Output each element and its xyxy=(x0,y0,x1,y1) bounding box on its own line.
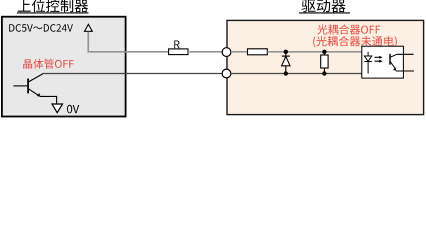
wire: supply down-then-right (top rail inside controller) xyxy=(88,32,168,52)
label: (光耦合器未通电) xyxy=(313,36,397,48)
label: 光耦合器OFF xyxy=(317,24,380,34)
wire: top rail resistor to LED xyxy=(267,51,368,53)
optocoupler U1 body xyxy=(362,46,404,78)
transistor Q1 collector lead xyxy=(28,73,43,82)
node: resistor top junction xyxy=(322,50,326,54)
power supply symbol (up triangle) xyxy=(85,24,93,31)
label: 驱动器 title xyxy=(299,0,350,13)
optocoupler light arrows xyxy=(375,56,383,63)
wire: bottom rail terminal to LED xyxy=(231,73,368,75)
protection diode D1 branch xyxy=(282,52,290,74)
label: 0V xyxy=(67,105,79,114)
driver box (驱动器 panel) xyxy=(227,20,424,114)
optocoupler LED xyxy=(364,52,371,74)
transistor Q1 emitter lead with arrow xyxy=(28,89,40,97)
internal series resistor (horizontal) xyxy=(248,49,268,55)
terminal circle (bottom input) xyxy=(222,69,231,78)
node: diode top junction xyxy=(284,50,288,54)
wire: top rail R to terminal xyxy=(188,51,222,53)
label: DC5V~DC24V xyxy=(9,24,73,32)
controller box (上位控制器 panel) xyxy=(2,17,126,117)
label: 晶体管OFF xyxy=(23,59,74,69)
wire: bottom rail from collector to terminal xyxy=(43,73,222,75)
label: R xyxy=(174,41,179,49)
wire: phototransistor collector output xyxy=(397,53,414,55)
terminal circle (top input) xyxy=(222,48,231,57)
label: 上位控制器 title xyxy=(17,0,89,13)
optocoupler phototransistor xyxy=(390,54,397,71)
resistor R (series) xyxy=(169,49,188,55)
wire: phototransistor emitter output xyxy=(396,70,414,72)
transistor Q1 base lead xyxy=(13,85,28,87)
wire: top rail terminal to internal resistor xyxy=(231,51,248,53)
transistor Q1 base bar xyxy=(27,79,29,94)
wire: emitter to 0V xyxy=(40,96,57,103)
internal resistor (vertical branch) xyxy=(321,52,328,74)
node: resistor bottom junction xyxy=(322,71,326,75)
ground symbol 0V (down triangle) xyxy=(52,104,63,113)
node: diode bottom junction xyxy=(284,71,288,75)
